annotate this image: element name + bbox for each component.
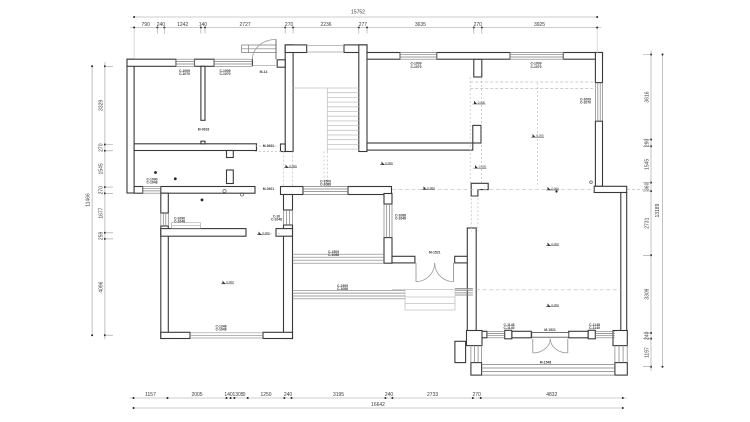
dimension bottom total line 16642 bbox=[134, 407, 623, 409]
svg-text:1250: 1250 bbox=[260, 392, 271, 398]
svg-text:M-0921: M-0921 bbox=[263, 187, 275, 191]
svg-text:0.000: 0.000 bbox=[551, 186, 559, 190]
stair flight edge bbox=[326, 88, 328, 152]
elevation mark at door gap 257,230 bbox=[257, 231, 270, 235]
extension line top chain left bbox=[133, 29, 135, 59]
svg-text:290: 290 bbox=[645, 139, 651, 148]
MARKS bbox=[154, 100, 592, 307]
svg-text:3635: 3635 bbox=[415, 22, 426, 28]
svg-text:0.000: 0.000 bbox=[551, 303, 559, 307]
wall top segment A (top-left room) bbox=[127, 59, 176, 66]
svg-text:0.000: 0.000 bbox=[478, 100, 486, 104]
wall mid-bottom-room top east bbox=[348, 187, 392, 195]
dashed ceiling line top-right area bbox=[470, 82, 595, 89]
door stop dot b bbox=[174, 177, 177, 180]
terrace side hatch east bbox=[615, 345, 627, 363]
wall mid column x384 lower bbox=[384, 238, 392, 264]
window mid vertical x284 (C-1048) bbox=[284, 210, 293, 225]
svg-text:3195: 3195 bbox=[333, 392, 344, 398]
wall right jog horizontal bbox=[594, 186, 627, 192]
wall bottom corner block SE bbox=[613, 331, 627, 346]
window bottom-left-room bottom (C-1248) bbox=[190, 333, 263, 338]
svg-text:C-1088: C-1088 bbox=[328, 253, 339, 257]
svg-text:277: 277 bbox=[359, 22, 368, 28]
svg-text:C-1048: C-1048 bbox=[174, 220, 185, 224]
dashed stub right of jog bbox=[627, 188, 648, 190]
svg-text:C-1070: C-1070 bbox=[580, 101, 591, 105]
elevation mark at 465.0,99.5 bbox=[473, 100, 486, 104]
extension line top chain right bbox=[596, 29, 598, 54]
elevation mark at 221.0,279.6 bbox=[221, 280, 234, 284]
svg-text:3309: 3309 bbox=[645, 288, 651, 299]
window left wall vertical (C-1098) bbox=[161, 213, 169, 226]
wall bottom corner block SW bbox=[467, 331, 483, 346]
svg-text:0.000: 0.000 bbox=[427, 186, 435, 190]
svg-text:C-1140: C-1140 bbox=[589, 326, 600, 330]
STAIRS bbox=[293, 88, 473, 310]
wall top right-section east segment bbox=[509, 54, 511, 56]
window mid column vertical (C-1088) bbox=[384, 204, 392, 238]
equipment pad left of terrace bbox=[455, 341, 466, 362]
window top right-room (C-1009) bbox=[510, 53, 563, 60]
svg-text:2733: 2733 bbox=[427, 392, 438, 398]
svg-text:0.000: 0.000 bbox=[479, 165, 487, 169]
door stop dot a bbox=[154, 171, 157, 174]
terrace railing band bbox=[482, 364, 615, 375]
elevation mark at 546,241.5 bbox=[546, 242, 559, 246]
dimension left total line 11466 bbox=[91, 66, 93, 335]
wall living bottom bbox=[367, 143, 473, 150]
svg-text:1197: 1197 bbox=[645, 347, 651, 358]
window mid-bottom-room top (C-1509) bbox=[303, 187, 348, 195]
svg-text:1677: 1677 bbox=[99, 207, 105, 218]
WINDOWS bbox=[143, 45, 628, 375]
svg-text:C-1070: C-1070 bbox=[530, 65, 541, 69]
dimension top extension tails bbox=[157, 28, 482, 34]
elevation mark at 422.0,185.3 bbox=[422, 186, 435, 190]
svg-text:270: 270 bbox=[285, 22, 294, 28]
svg-text:240: 240 bbox=[284, 392, 293, 398]
window C2 top-left room east bbox=[214, 59, 252, 66]
wall bottom-right-room bottom seg2 bbox=[512, 331, 532, 338]
door double (vestibule) east arc bbox=[435, 263, 454, 282]
canopy faint rect above entry door bbox=[242, 45, 277, 53]
dotted jambs NW door bottom-right room bbox=[471, 198, 478, 231]
wall vestibule row east bbox=[455, 256, 473, 263]
wall living column bbox=[473, 125, 481, 143]
wall corridor lower west bbox=[134, 187, 143, 194]
wall closet stub bbox=[227, 170, 234, 184]
wall stair-block right bbox=[359, 45, 367, 152]
wall vestibule row west bbox=[392, 256, 415, 263]
svg-text:16642: 16642 bbox=[371, 402, 385, 408]
svg-text:0.000: 0.000 bbox=[289, 164, 297, 168]
WALLS bbox=[127, 45, 627, 375]
elevation mark at 284.0,163.5 bbox=[284, 164, 297, 168]
wall mid column x384 upper bbox=[384, 194, 392, 205]
window bottom-right room SW (C-1148) bbox=[487, 331, 505, 338]
window band2 loggia west (C-1088) bbox=[293, 290, 406, 299]
wall bottom-right-room bottom seg1 bbox=[467, 331, 487, 338]
svg-text:0.000: 0.000 bbox=[536, 134, 544, 138]
svg-text:270: 270 bbox=[473, 392, 482, 398]
hinge dot d bbox=[555, 190, 557, 192]
wall closet stem bbox=[201, 66, 205, 120]
svg-text:4096: 4096 bbox=[99, 281, 105, 292]
svg-text:240: 240 bbox=[385, 392, 394, 398]
svg-text:259: 259 bbox=[99, 232, 105, 241]
window right wall vertical (C-1009) bbox=[595, 83, 602, 122]
elevation mark at 471.5,160.5 bbox=[474, 165, 487, 169]
dashed line y289.8 across bottom-right room bbox=[476, 289, 621, 291]
wall bottom-right NW L-column bbox=[471, 183, 488, 196]
svg-text:240: 240 bbox=[157, 22, 166, 28]
svg-text:13189: 13189 bbox=[655, 203, 661, 217]
elevation mark at 380.0,160.5 bbox=[380, 161, 393, 165]
svg-text:270: 270 bbox=[99, 143, 105, 152]
dimension left ticks bbox=[104, 65, 106, 67]
door double (vestibule) west arc bbox=[416, 263, 435, 282]
svg-text:3925: 3925 bbox=[534, 22, 545, 28]
wall stair-top segment east bbox=[344, 45, 367, 53]
svg-text:M-1521: M-1521 bbox=[544, 328, 556, 332]
svg-text:0.000: 0.000 bbox=[385, 161, 393, 165]
svg-text:M-1548: M-1548 bbox=[540, 360, 552, 364]
hinge circle b bbox=[240, 193, 243, 196]
svg-text:M-14: M-14 bbox=[260, 70, 268, 74]
svg-text:0.000: 0.000 bbox=[262, 231, 270, 235]
svg-text:C-1048: C-1048 bbox=[146, 181, 157, 185]
hinge circle a bbox=[223, 189, 226, 192]
window top mid-room (C-1009) bbox=[400, 53, 437, 60]
door entry swing arc bbox=[252, 39, 276, 59]
dashed line y189 across hall bbox=[392, 188, 594, 190]
svg-text:2731: 2731 bbox=[645, 217, 651, 228]
wall left-outer (top-left block) bbox=[127, 59, 134, 193]
door double (terrace) west arc bbox=[533, 339, 551, 353]
svg-text:0: 0 bbox=[243, 392, 246, 398]
window bottom-right room SE (C-1148) bbox=[595, 331, 615, 338]
elevation mark at 531.0,133.0 bbox=[531, 134, 544, 138]
svg-text:1242: 1242 bbox=[177, 22, 188, 28]
wall bottom-right-room bottom seg3 bbox=[569, 331, 589, 338]
door threshold line entry bbox=[252, 65, 277, 67]
DOORS bbox=[252, 39, 568, 353]
dimension top total line 15752 bbox=[134, 16, 597, 18]
svg-text:4832: 4832 bbox=[546, 392, 557, 398]
svg-text:0.000: 0.000 bbox=[551, 242, 559, 246]
terrace side hatch west bbox=[471, 345, 482, 363]
svg-text:2005: 2005 bbox=[191, 392, 202, 398]
svg-text:C-1088: C-1088 bbox=[320, 183, 331, 187]
door double (terrace) east arc bbox=[550, 339, 568, 353]
door double (vestibule) east leaf bbox=[453, 263, 455, 282]
wall top right-section west segment bbox=[367, 53, 400, 60]
door double (vestibule) west leaf bbox=[415, 263, 417, 282]
wall mid vertical (x284-292) upper bbox=[284, 195, 293, 211]
door entry leaf (top) bbox=[275, 39, 277, 59]
window C1 top-left room west bbox=[176, 59, 195, 66]
wall corridor divider A bbox=[134, 144, 256, 151]
wall bottom-left-room bottom west bbox=[161, 332, 190, 338]
elevation mark at 546.0,302.5 bbox=[546, 303, 559, 307]
dashed vertical x537.7 bbox=[537, 83, 539, 187]
svg-text:C-1070: C-1070 bbox=[410, 65, 421, 69]
dimension left extension stubs bbox=[105, 66, 113, 335]
wall bottom-left-room bottom east bbox=[263, 332, 293, 338]
wall stair-top segment west bbox=[285, 45, 307, 53]
wall mid vertical (x284-292) lower bbox=[284, 225, 293, 339]
dotted line under stair foot bbox=[255, 146, 284, 152]
wall right upper above window bbox=[595, 53, 602, 83]
svg-text:C-1070: C-1070 bbox=[219, 72, 230, 76]
stair treads bbox=[327, 88, 359, 149]
wall stair-block left bbox=[285, 45, 293, 152]
svg-text:C-1048: C-1048 bbox=[271, 218, 282, 222]
elevation mark at 546.0,185.8 bbox=[546, 186, 559, 190]
svg-text:3329: 3329 bbox=[99, 100, 105, 111]
dimension right chain line bbox=[650, 51, 652, 371]
terrace post west bbox=[471, 363, 482, 376]
wall top-wall right cap at window2 end bbox=[251, 59, 253, 66]
DASHED GUIDES bbox=[134, 29, 648, 290]
wall lower-left vertical upper bbox=[161, 193, 169, 213]
svg-text:M-0921: M-0921 bbox=[263, 144, 275, 148]
wall square pillar mark west bbox=[505, 330, 512, 339]
door double (terrace) west leaf bbox=[532, 339, 534, 353]
svg-text:15752: 15752 bbox=[351, 10, 365, 16]
hinge circle c bbox=[590, 181, 593, 184]
svg-text:M-1521: M-1521 bbox=[429, 251, 441, 255]
window band2 loggia east bbox=[455, 289, 473, 296]
wall lower-left vertical lower bbox=[161, 226, 169, 339]
svg-text:0.000: 0.000 bbox=[226, 280, 234, 284]
svg-text:C-1140: C-1140 bbox=[504, 326, 515, 330]
wall corridor lower mid bbox=[161, 187, 255, 194]
wall top right-section mid segment bbox=[437, 53, 510, 60]
wall right upper below window bbox=[595, 121, 602, 186]
svg-text:240: 240 bbox=[645, 331, 651, 340]
wall right lower vertical bbox=[621, 193, 627, 333]
svg-text:140: 140 bbox=[199, 22, 208, 28]
svg-text:2727: 2727 bbox=[240, 22, 251, 28]
window corridor lower (C-1090) bbox=[143, 187, 161, 194]
wall stair-left door notch bbox=[277, 60, 285, 67]
dimension right extension stubs bbox=[643, 55, 651, 367]
dotted stair hall verticals bbox=[284, 152, 328, 187]
door terrace lintel rect bbox=[532, 333, 569, 338]
svg-text:C-1088: C-1088 bbox=[337, 287, 348, 291]
wall divider-A nub bbox=[227, 151, 234, 158]
wall divider-A bump bbox=[201, 141, 205, 144]
window stair-top shaft bbox=[307, 45, 344, 52]
svg-text:M-0918: M-0918 bbox=[198, 127, 210, 131]
dimension right ticks bbox=[650, 54, 652, 56]
wall bottom-right-room left bbox=[467, 228, 476, 332]
window band1 loggia (C-1509) bbox=[293, 254, 385, 263]
svg-text:270: 270 bbox=[474, 22, 483, 28]
svg-text:3616: 3616 bbox=[645, 91, 651, 102]
wall square pillar mark east bbox=[588, 330, 595, 339]
svg-text:790: 790 bbox=[142, 22, 151, 28]
svg-text:11466: 11466 bbox=[86, 193, 92, 207]
svg-text:1545: 1545 bbox=[99, 163, 105, 174]
dimension left chain line bbox=[104, 62, 106, 339]
svg-text:1545: 1545 bbox=[645, 159, 651, 170]
window bottom-left-room small (near top wall) bbox=[172, 223, 201, 229]
svg-text:C-1048: C-1048 bbox=[395, 217, 406, 221]
wall bottom-left-room top east bbox=[276, 229, 293, 237]
wall T-column top bbox=[474, 59, 482, 77]
dimension bottom ticks bbox=[133, 397, 135, 399]
dimension right total line 13189 bbox=[662, 55, 664, 367]
wall bottom-left-room top west bbox=[161, 229, 246, 237]
dimension top chain line bbox=[130, 27, 601, 29]
interior steps below double door bbox=[392, 289, 473, 310]
dotted column lines x470/481.6 bbox=[470, 77, 481, 183]
svg-text:C-1048: C-1048 bbox=[215, 328, 226, 332]
svg-text:1157: 1157 bbox=[145, 392, 156, 398]
svg-text:2236: 2236 bbox=[320, 22, 331, 28]
terrace post east bbox=[615, 363, 627, 376]
dimension bottom chain line bbox=[130, 397, 627, 399]
wall stair-left foot bbox=[281, 144, 286, 152]
stair landing edge bbox=[293, 87, 327, 89]
svg-text:C-1070: C-1070 bbox=[179, 72, 190, 76]
wall mid-bottom-room top west bbox=[281, 187, 304, 195]
dimension top ticks bbox=[133, 27, 135, 29]
door stop dot c bbox=[201, 199, 204, 202]
svg-text:270: 270 bbox=[99, 186, 105, 195]
wall top pier between windows bbox=[195, 59, 215, 66]
door double (terrace) east leaf bbox=[567, 339, 569, 353]
